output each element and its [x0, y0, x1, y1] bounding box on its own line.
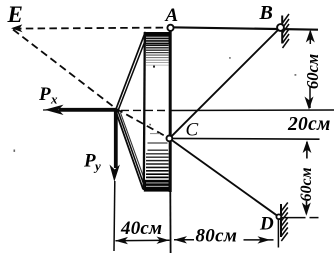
drum left edge	[144, 32, 145, 190]
cone upper edge double line	[116, 32, 146, 110]
paper speck	[229, 57, 231, 59]
dashed line E to apex to C	[13, 30, 169, 139]
drum speck dots	[153, 66, 155, 68]
svg-text:A: A	[165, 5, 179, 26]
svg-text:C: C	[186, 120, 199, 141]
svg-text:80см: 80см	[196, 225, 238, 246]
upper 60cm dimension line	[305, 30, 315, 110]
cone lower edge triple line	[115, 110, 143, 189]
lower 60cm dimension line	[302, 140, 312, 215]
40cm dimension line with arrows	[115, 237, 170, 245]
wire AB top horizontal line A to B extended right	[171, 27, 319, 29]
force Py arrow	[110, 110, 120, 182]
drum body stripes top section	[145, 35, 172, 65]
vertical extension below drum on AC line	[169, 192, 171, 253]
axis line at apex level to right edge	[121, 109, 171, 111]
rod BC	[169, 28, 280, 139]
drum body stripes bottom section	[146, 143, 169, 177]
svg-text:y: y	[93, 159, 101, 174]
wall hatching at D	[281, 203, 288, 242]
arrow head at E	[11, 24, 23, 32]
paper speck	[295, 74, 297, 76]
40cm extension line left	[113, 181, 116, 251]
pin joint D	[276, 214, 281, 219]
80cm dimension line with arrows	[174, 236, 274, 244]
rod CD	[169, 138, 278, 216]
drum bottom dark band	[144, 180, 172, 192]
svg-text:B: B	[259, 2, 273, 24]
paper speck	[14, 150, 16, 152]
80cm extension line right under D	[277, 220, 279, 248]
pin joint B	[277, 24, 284, 31]
svg-text:60см: 60см	[298, 167, 315, 201]
svg-text:x: x	[50, 92, 58, 107]
svg-text:E: E	[7, 2, 23, 27]
dashed line E to A	[14, 28, 167, 29]
drum right edge	[169, 30, 172, 193]
line C to right	[169, 137, 319, 140]
pin joint C	[167, 136, 173, 142]
wall hatching at B	[282, 14, 289, 48]
force Px arrow	[43, 105, 117, 115]
svg-text:D: D	[259, 214, 274, 235]
svg-text:60см: 60см	[303, 54, 322, 89]
svg-text:P: P	[38, 84, 51, 105]
drum top edge	[144, 32, 170, 35]
svg-text:20см: 20см	[287, 114, 331, 135]
pin joint A	[167, 25, 173, 31]
horizontal reference line at D	[281, 217, 306, 219]
svg-text:40см: 40см	[120, 218, 162, 239]
